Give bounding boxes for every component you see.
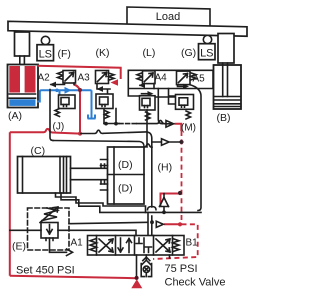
- red junction dots: [78, 132, 82, 136]
- beam: [8, 21, 247, 36]
- blue line from cylinder A cap to valves: [37, 90, 92, 101]
- valve A4: [137, 71, 163, 147]
- arrowhead A5 right arrow: [183, 84, 189, 89]
- svg-text:Set 450 PSI: Set 450 PSI: [16, 265, 75, 277]
- load sensor LS G box: [199, 44, 216, 60]
- red pump triangle: [131, 279, 142, 288]
- load sensor LS G circle: [203, 35, 211, 43]
- svg-text:(D): (D): [118, 159, 133, 171]
- svg-text:A3: A3: [78, 73, 91, 84]
- cylinder A piston: [9, 94, 35, 98]
- hop on pipe at H drop: [148, 207, 157, 210]
- wire L1 to M arrow: [104, 123, 119, 125]
- svg-text:(M): (M): [181, 123, 196, 134]
- arrowhead A4 right arrow: [148, 91, 154, 96]
- load box: [127, 7, 210, 27]
- cylinder B rod lines: [223, 65, 228, 97]
- cylinder B cap lines: [214, 104, 241, 107]
- directional valve body: [88, 236, 185, 256]
- svg-text:(G): (G): [181, 47, 196, 59]
- cylinder C piston: [60, 157, 67, 194]
- svg-text:LS: LS: [200, 48, 213, 60]
- check valve 75psi: [145, 255, 147, 260]
- check arrow to M: [166, 121, 174, 128]
- valve port lines: [58, 230, 170, 278]
- junction to supply: [135, 276, 139, 280]
- spring left: [90, 239, 97, 252]
- wire L2 from J to H drop: [81, 130, 152, 236]
- arrowhead A2 left arrow: [50, 82, 57, 88]
- svg-text:A5: A5: [193, 74, 206, 85]
- svg-text:(K): (K): [96, 47, 110, 59]
- cylinder A cap-side blue fluid: [9, 99, 35, 106]
- red arrowhead into A3: [111, 79, 119, 86]
- relief valve E body: [41, 223, 58, 239]
- junction dots: [114, 122, 118, 126]
- wire pipe drop to valve P port: [147, 212, 149, 236]
- counterbalance block D: [108, 147, 145, 204]
- svg-text:(B): (B): [217, 112, 231, 124]
- wire hop over D top: [144, 144, 152, 147]
- svg-text:(D): (D): [118, 183, 133, 195]
- red line valve A2 right port down to J line: [74, 85, 80, 134]
- svg-text:Load: Load: [156, 11, 180, 23]
- spring right: [173, 239, 180, 252]
- piston rod B: [223, 63, 228, 65]
- pipe from C to directional valve staircase: [56, 193, 146, 212]
- svg-text:(J): (J): [53, 122, 65, 133]
- blue junction dot: [55, 89, 59, 93]
- load sensor LS F box: [37, 45, 54, 61]
- node at pilot junction: [150, 220, 154, 224]
- svg-text:(E): (E): [12, 241, 26, 253]
- relief valve E dashed enclosure: [28, 208, 70, 250]
- rod clevis left: [15, 32, 30, 56]
- svg-text:(C): (C): [31, 145, 46, 157]
- cylinder A rod-side red fluid: [9, 66, 20, 93]
- cylinder A rod-side red fluid right slab: [25, 66, 36, 93]
- blue branch down into A2 bottom box: [59, 90, 61, 95]
- blue branch down at A3 with foot: [88, 90, 96, 118]
- svg-text:(L): (L): [143, 47, 156, 59]
- red pressure line from cylinder A rod side over valves A2 A3: [37, 66, 121, 79]
- red pilot dashed M line: [153, 131, 198, 259]
- box2 straight arrows: [118, 238, 132, 253]
- box3 blocked center: [136, 238, 152, 253]
- svg-text:(F): (F): [58, 48, 71, 60]
- valve A2: [51, 71, 76, 117]
- svg-text:A2: A2: [38, 73, 51, 84]
- arrowhead A4 left arrow: [139, 83, 145, 89]
- red bottom supply line: [10, 276, 137, 279]
- cylinder C body: [18, 157, 71, 194]
- manifold ports to valve A5: [155, 89, 176, 105]
- pilot wire from relief enclosure to valve drop: [69, 222, 148, 223]
- red line J horizontal with hop: [10, 129, 80, 134]
- svg-text:B1: B1: [186, 238, 199, 249]
- pipe lower run to node at A5 drop: [61, 193, 201, 212]
- box1 crossed arrows: [99, 239, 113, 252]
- rod clevis right: [218, 34, 234, 64]
- check arrow on pilot wire: [156, 221, 163, 227]
- red link at check valve H: [161, 194, 180, 225]
- relief valve E spring: [42, 208, 57, 221]
- red supply left vertical: [9, 132, 11, 276]
- cylinder B body: [214, 65, 242, 109]
- relief valve E piping: [10, 229, 41, 231]
- svg-text:(H): (H): [158, 162, 173, 174]
- cylinder C cap line: [22, 157, 24, 194]
- svg-text:(A): (A): [8, 110, 22, 122]
- check valve vertical at H: [160, 194, 169, 213]
- valve A3: [96, 71, 117, 124]
- svg-text:Check Valve: Check Valve: [165, 277, 226, 289]
- wire L3 to D block: [53, 141, 144, 147]
- cylinder B piston: [214, 97, 241, 101]
- spring: [58, 72, 64, 80]
- blue arrowhead: [65, 87, 72, 94]
- cylinder A body: [8, 65, 39, 108]
- wire H horizontal with check arrow: [152, 139, 180, 146]
- piston rod A: [20, 56, 25, 65]
- arrowhead A3 left arrow: [97, 86, 104, 92]
- svg-text:A1: A1: [71, 238, 84, 249]
- red corner at M: [175, 124, 182, 131]
- manifold box around A4 A5: [128, 70, 213, 96]
- wire A2 drop: [50, 90, 53, 141]
- svg-text:75 PSI: 75 PSI: [165, 263, 198, 275]
- box4 crossed arrows: [156, 239, 170, 252]
- svg-text:A4: A4: [155, 73, 168, 84]
- svg-text:LS: LS: [39, 49, 52, 61]
- cylinder C rod: [71, 168, 109, 179]
- valve A5: [176, 71, 202, 210]
- load sensor LS F circle: [41, 36, 49, 44]
